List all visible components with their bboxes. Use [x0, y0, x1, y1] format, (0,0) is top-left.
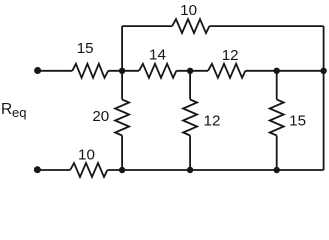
resistor 15 (vertical, x=277) — [270, 100, 284, 136]
junction dot (x=122, bottom row) — [119, 167, 125, 173]
node C junction dot (x=277, middle row) — [274, 68, 280, 74]
wire: bottom terminal to R10b — [37, 169, 70, 171]
resistor 20 (vertical, x=122) — [115, 100, 129, 136]
node A junction dot (x=122, middle row) — [119, 68, 125, 74]
svg-text:12: 12 — [204, 112, 221, 129]
wire: R12v down to bottom row — [189, 136, 191, 171]
wire: right edge vertical — [323, 26, 325, 170]
wire: node B down to R12v — [189, 71, 191, 100]
resistor 10 (horizontal, top branch) — [172, 19, 209, 33]
svg-text:eq: eq — [12, 105, 26, 120]
svg-text:12: 12 — [222, 47, 239, 64]
wire: top branch left segment — [122, 25, 172, 27]
wire: node C down to R15v — [276, 71, 278, 100]
wire: top terminal to R15 — [38, 70, 73, 72]
wire: R15 to node A — [108, 70, 139, 72]
resistor 12 (vertical, x=190) — [183, 100, 197, 136]
svg-text:15: 15 — [77, 40, 94, 57]
wire: R14 to node B — [176, 70, 208, 72]
terminal dot: bottom-left input — [34, 166, 41, 173]
wire: R12 to node C and right edge — [245, 70, 323, 72]
svg-text:R: R — [1, 101, 12, 118]
terminal dot: top-left input — [34, 67, 41, 74]
node B junction dot (x=190, middle row) — [187, 68, 193, 74]
svg-text:15: 15 — [289, 112, 306, 129]
label: Req equivalent resistance — [1, 101, 26, 120]
svg-text:10: 10 — [180, 2, 197, 19]
resistor 10 (horizontal, bottom-left) — [70, 163, 107, 177]
resistor 14 (horizontal, middle row) — [139, 64, 176, 78]
resistor 12 (horizontal, middle row) — [208, 64, 245, 78]
svg-text:14: 14 — [149, 46, 166, 63]
junction dot (x=190, bottom row) — [187, 167, 193, 173]
wire: bottom row — [107, 169, 323, 171]
resistor 15 (horizontal, top-left) — [72, 64, 108, 78]
wire: top branch right segment — [209, 25, 323, 27]
svg-text:20: 20 — [92, 108, 109, 125]
wire: node A up to top branch — [121, 26, 123, 71]
junction dot (right edge, middle row) — [320, 68, 326, 74]
junction dot (x=277, bottom row) — [274, 167, 280, 173]
svg-text:10: 10 — [78, 147, 95, 164]
wire: R15v down to bottom row — [276, 136, 278, 171]
wire: node A down to R20 — [121, 71, 123, 100]
wire: R20 down to bottom row — [121, 136, 123, 171]
